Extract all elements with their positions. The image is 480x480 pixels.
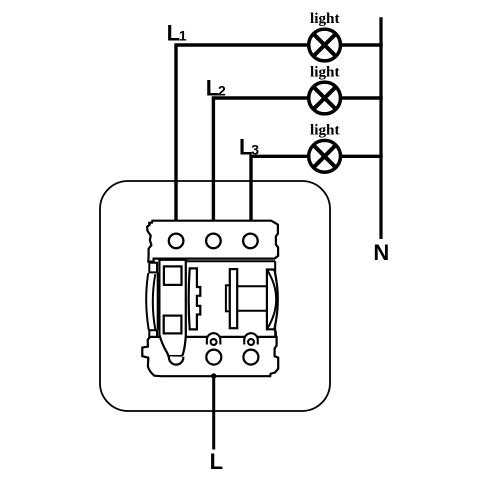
switch mechanism: top terminal bar	[147, 221, 278, 262]
rocker frame and tapered lever body	[159, 260, 185, 356]
lever bottom bulb	[169, 356, 183, 364]
wire L3	[249, 156, 307, 222]
svg-text:N: N	[373, 240, 389, 265]
wire lamp3 to N	[342, 155, 383, 158]
lamp 3	[309, 140, 341, 172]
left connecting lug (bottom)	[149, 330, 157, 338]
wire L2	[212, 98, 308, 222]
contact bar (narrow vertical)	[230, 269, 237, 328]
contact slider small block	[226, 285, 230, 311]
lamp 1	[309, 29, 341, 61]
svg-text:light: light	[310, 64, 340, 81]
left housing inner arc	[153, 274, 156, 329]
svg-text:L2: L2	[206, 76, 226, 101]
terminal hole 1	[169, 234, 184, 249]
svg-text:L: L	[210, 449, 223, 474]
terminal circle 2 (bottom)	[243, 350, 258, 365]
left connecting lug (top)	[149, 263, 157, 273]
mechanism housing right wall	[274, 261, 276, 336]
left housing outer arc	[146, 273, 149, 330]
drum lower wall stub	[275, 330, 276, 338]
connector line bottom	[237, 310, 267, 312]
wire lamp1 to N	[342, 43, 383, 46]
rocker window (top square)	[164, 266, 182, 285]
left housing chord	[157, 273, 159, 330]
actuator bar (curved D-bar with tabs)	[189, 268, 201, 329]
node: L wire junction dot	[211, 373, 216, 378]
lamp 2	[309, 82, 341, 114]
bottom terminal bar	[142, 337, 278, 376]
contact drum inner arc	[267, 270, 276, 330]
wire L (down from mechanism)	[212, 376, 215, 450]
connector line top	[237, 285, 267, 287]
screw 2 hood	[243, 333, 259, 343]
terminal hole 3	[243, 234, 258, 249]
svg-text:light: light	[310, 10, 340, 27]
screw 1 hood	[206, 333, 222, 343]
rocker window (bottom square)	[164, 316, 182, 334]
screw 1 head	[211, 339, 217, 345]
wire L1 (vertical drop + horizontal run to lamp 1)	[174, 45, 307, 222]
contact drum (white cylinder side: chord, stubs, outer arc)	[267, 270, 278, 330]
screw 2 head	[248, 339, 254, 345]
neutral line N	[379, 17, 382, 239]
svg-text:light: light	[310, 122, 340, 139]
svg-text:L3: L3	[239, 134, 259, 159]
terminal hole 2	[206, 234, 221, 249]
switch wall plate	[100, 181, 330, 411]
wire lamp2 to N	[342, 96, 383, 99]
mechanism housing top edge	[187, 260, 276, 262]
terminal circle 1 (bottom)	[206, 350, 221, 365]
svg-text:L1: L1	[167, 21, 187, 46]
